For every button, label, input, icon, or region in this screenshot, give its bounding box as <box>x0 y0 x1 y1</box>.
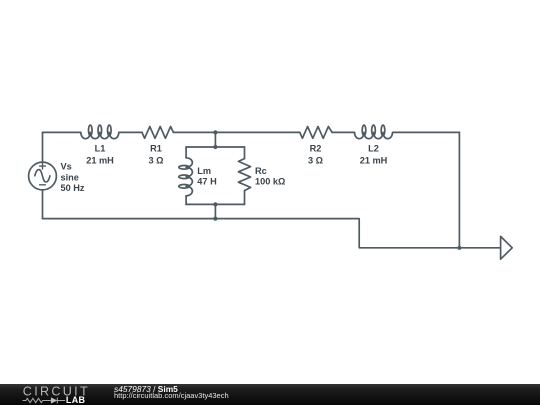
svg-text:R2: R2 <box>310 144 322 154</box>
svg-text:LAB: LAB <box>66 395 86 405</box>
svg-text:21 mH: 21 mH <box>360 156 388 166</box>
svg-text:R1: R1 <box>150 144 162 154</box>
svg-text:21 mH: 21 mH <box>86 156 114 166</box>
svg-text:Vs: Vs <box>61 161 72 171</box>
svg-text:L1: L1 <box>95 144 106 154</box>
svg-text:100 kΩ: 100 kΩ <box>255 177 285 187</box>
svg-text:3 Ω: 3 Ω <box>308 156 323 166</box>
svg-text:Rc: Rc <box>255 166 267 176</box>
svg-text:47 H: 47 H <box>197 177 217 187</box>
svg-text:3 Ω: 3 Ω <box>148 156 163 166</box>
svg-text:sine: sine <box>61 173 79 183</box>
svg-text:50 Hz: 50 Hz <box>61 183 85 193</box>
svg-text:Lm: Lm <box>197 166 211 176</box>
svg-text:L2: L2 <box>368 144 379 154</box>
